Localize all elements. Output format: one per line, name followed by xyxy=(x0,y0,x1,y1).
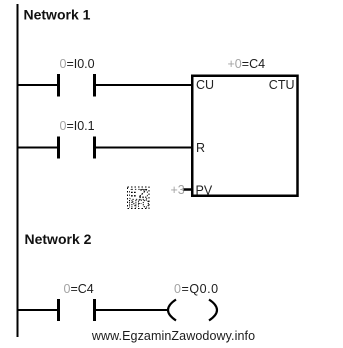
svg-text:0=I0.1: 0=I0.1 xyxy=(60,119,95,133)
svg-text:+0=C4: +0=C4 xyxy=(228,57,266,71)
contact C4 xyxy=(59,282,95,321)
watermark EZ INFO icon xyxy=(128,187,150,209)
svg-text:R: R xyxy=(196,141,205,155)
wire rung1: rail to contact I0.0 xyxy=(17,84,58,86)
svg-text:0=Q0.0: 0=Q0.0 xyxy=(174,282,219,296)
network 1 label xyxy=(24,7,91,23)
svg-text:CTU: CTU xyxy=(269,78,295,92)
svg-text:PV: PV xyxy=(196,184,213,198)
svg-text:Network 2: Network 2 xyxy=(25,231,92,247)
wire rung3: rail to contact C4 xyxy=(17,309,58,311)
svg-text:www.EgzaminZawodowy.info: www.EgzaminZawodowy.info xyxy=(91,329,255,343)
contact I0.1 xyxy=(59,119,95,158)
watermark url text xyxy=(91,329,255,343)
coil Q0.0 xyxy=(168,282,219,321)
contact I0.0 xyxy=(59,57,95,97)
left power rail xyxy=(17,4,19,337)
svg-text:0=I0.0: 0=I0.0 xyxy=(60,57,95,71)
PV constant +3 xyxy=(171,183,193,197)
value label +0=C4 xyxy=(228,57,266,71)
wire contact I0.0 to CU input xyxy=(96,84,192,86)
INFO letters xyxy=(130,200,149,207)
wire rung2: rail to contact I0.1 xyxy=(17,147,58,149)
svg-text:+3: +3 xyxy=(171,183,185,197)
svg-text:Network 1: Network 1 xyxy=(24,7,91,23)
svg-text:CU: CU xyxy=(196,78,214,92)
svg-text:0=C4: 0=C4 xyxy=(64,282,94,296)
network 2 label xyxy=(25,231,92,247)
wire contact I0.1 to R input xyxy=(96,147,192,149)
wire contact C4 to coil Q0.0 xyxy=(96,309,169,311)
counter C4 box (CTU) xyxy=(192,76,297,198)
